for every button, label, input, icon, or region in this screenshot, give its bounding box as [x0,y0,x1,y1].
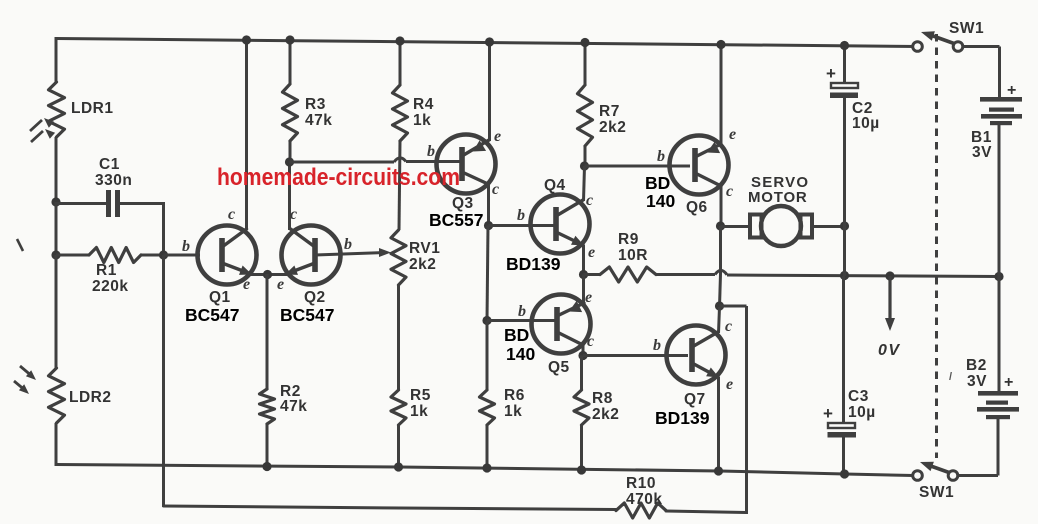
svg-text:C3: C3 [848,388,869,405]
resistor R10 [616,503,666,518]
svg-text:1k: 1k [413,112,431,129]
0V arrow [888,276,891,320]
svg-text:BD139: BD139 [506,254,561,274]
svg-text:0V: 0V [878,342,901,359]
svg-text:2k2: 2k2 [599,119,626,136]
svg-text:b: b [517,207,525,224]
svg-text:Q4: Q4 [544,177,566,194]
svg-text:+: + [1007,82,1016,99]
svg-text:b: b [653,337,661,354]
battery B1 [980,97,1022,102]
svg-text:Q7: Q7 [684,391,706,408]
svg-text:B2: B2 [966,357,987,374]
wire: 0V mid line to battery midpoint [727,275,999,277]
wire: Q1 collector to rail [245,39,248,230]
wire: Q6 emitter to rail [720,44,723,145]
svg-text:47k: 47k [280,398,307,415]
wire: Q2 collector up to R3 node [288,162,291,230]
svg-text:RV1: RV1 [409,240,440,257]
wire: Q3 collector down [487,183,490,226]
svg-text:b: b [182,238,190,255]
resistor R3 [289,38,292,84]
node: R1/C1/R10 junction (Q1 base node) [159,250,168,259]
svg-text:b: b [518,303,526,320]
svg-text:220k: 220k [92,278,128,295]
svg-text:Q1: Q1 [209,289,231,306]
wire: Q5 base node down to R6 [486,321,489,391]
wire: left vertical LDR1 to R1 [55,202,58,256]
potentiometer RV1 [391,230,406,285]
wire: motor right lead [812,225,845,228]
svg-text:BD139: BD139 [655,408,710,428]
svg-text:R1: R1 [96,262,117,279]
svg-text:2k2: 2k2 [592,406,619,423]
capacitor C1 [106,190,111,217]
svg-text:b: b [427,143,435,160]
wire: Q7.c node to R10 riser [720,305,747,308]
svg-text:c: c [228,206,235,223]
svg-text:140: 140 [646,191,675,211]
resistor R8 [580,356,583,391]
svg-text:Q2: Q2 [304,289,326,306]
wire: Q7 emitter down to 0V rail [717,377,720,472]
wire: motor left lead [721,225,752,228]
svg-text:R7: R7 [599,103,620,120]
node: R3/Q2.c junction [285,157,294,166]
svg-text:R10: R10 [626,475,656,492]
resistor R9 [584,273,601,276]
svg-text:homemade-circuits.com: homemade-circuits.com [217,164,460,191]
node: Q3.c / Q4 base node [484,221,493,230]
svg-text:c: c [725,318,732,335]
svg-text:BC557: BC557 [429,210,483,230]
wire: Q4 collector up to R7 node [584,166,585,201]
LDR2 light arrow 1 [20,366,33,377]
wire: left vertical R1 to LDR2 [55,255,58,368]
wire: bottom 0V rail [56,465,913,476]
node: C1 left junction [51,197,60,206]
wire: C2 bottom lead down through motor node to 0V line [843,98,846,276]
transistor Q6 BD140 [670,136,729,195]
LDR2 light arrow 2 [14,381,26,391]
svg-text:b: b [344,236,352,253]
svg-text:R8: R8 [592,390,613,407]
svg-text:10µ: 10µ [852,115,880,132]
LDR2 [49,368,65,423]
wire: Q3.c node to Q4 base [489,224,557,227]
svg-text:140: 140 [506,344,535,364]
svg-text:BC547: BC547 [185,305,239,325]
svg-text:e: e [585,289,592,306]
node: R7 bottom / Q4.c / Q6 base [580,161,589,170]
wire: Q1-Q2 emitter junction [249,273,288,276]
dashed switch gang line [935,34,938,458]
wire: C1 left lead [56,202,108,205]
svg-text:b: b [657,148,665,165]
transistor Q2 BC547 [282,226,341,285]
wire: C3 to bottom rail [842,437,845,475]
LDR1 light arrow 1 [30,120,42,131]
wire: lower feedback rail (R10) [162,255,165,507]
svg-text:2k2: 2k2 [409,256,436,273]
svg-text:3V: 3V [972,144,992,161]
svg-text:/: / [949,371,953,383]
wire: Q2 base to RV1 wiper [315,253,385,256]
svg-text:e: e [588,244,595,261]
svg-text:SW1: SW1 [919,484,954,501]
svg-text:10R: 10R [618,247,648,264]
stray mark [17,239,23,251]
wire: left vertical from top rail to LDR1 [55,37,58,82]
node: motor right / C2 line junction [840,221,849,230]
wire: to Q1 base [164,254,201,257]
node: R2 bottom [262,462,271,471]
svg-text:+: + [826,64,836,83]
svg-text:R3: R3 [305,96,326,113]
wire: C2/C3 line to C3 [842,276,845,423]
svg-text:R9: R9 [618,231,639,248]
wire: to Q6 base [585,165,691,168]
node: Q5 base node [482,316,491,325]
svg-text:LDR2: LDR2 [69,389,111,406]
svg-text:10µ: 10µ [848,404,876,421]
wire: down to Q5 emitter [582,275,585,305]
transistor Q3 BC557 [437,135,496,194]
wire: R3 node to Q3 base [290,161,395,164]
svg-text:47k: 47k [305,112,332,129]
wire hop over bridge line [715,270,727,274]
svg-text:e: e [726,376,733,393]
svg-text:BD: BD [645,173,670,193]
wire: Q7 collector lead [719,307,720,333]
svg-text:C1: C1 [99,156,120,173]
battery B2 [978,391,1018,396]
wire: to Q7 base [583,354,688,357]
wire: R9 to crossing [656,273,715,276]
node: 0V tap [885,271,894,280]
svg-text:Q6: Q6 [686,199,708,216]
LDR1 light arrow 2 [31,131,43,142]
wire: Q4 emitter down [582,245,585,275]
node: motor left terminal junction [716,221,725,230]
resistor R4 [399,38,402,85]
wire: SW1 to B1 [963,45,1000,48]
transistor Q1 BC547 [198,226,257,285]
switch SW1 (bottom pole) [913,471,923,481]
resistor R7 [584,39,587,85]
wire: emitter junction down to R2 [266,274,269,389]
svg-text:3V: 3V [967,373,987,390]
wire: B1 to B2 [998,125,1001,392]
node: Q7 collector junction [715,301,724,310]
svg-text:BC547: BC547 [280,305,334,325]
transistor Q4 BD139 [531,195,590,254]
svg-text:c: c [290,206,297,223]
svg-text:c: c [726,183,733,200]
svg-text:c: c [492,181,499,198]
transistor Q7 BD139 [667,326,726,385]
svg-text:MOTOR: MOTOR [748,189,808,206]
switch SW1 (top pole) [913,42,923,52]
resistor R6 [480,390,495,425]
svg-text:1k: 1k [504,403,522,420]
svg-text:e: e [243,276,250,293]
wire: top positive supply rail [56,39,917,47]
LDR1 [49,82,65,137]
resistor R5 [391,390,406,425]
svg-text:1k: 1k [410,403,428,420]
svg-text:330n: 330n [95,172,132,189]
svg-text:BD: BD [504,325,529,345]
node: R1 left junction [51,250,60,259]
node: Q4.e/Q5.e/R9 junction [579,270,588,279]
wire: bridge vertical to R9 crossing and Q7.c [719,226,722,274]
resistor R1 [56,254,89,257]
wire: Q6 collector down to motor node [720,186,723,227]
svg-text:+: + [1004,374,1013,391]
svg-text:Q5: Q5 [548,359,570,376]
svg-text:470k: 470k [626,491,662,508]
svg-text:SW1: SW1 [949,20,984,37]
wire hop over R4/RV1 line [394,158,406,162]
svg-text:e: e [729,126,736,143]
wire: Q3c node down to Q5 base node [487,226,488,322]
svg-text:e: e [494,128,501,145]
transistor Q5 BD140 [532,295,591,354]
svg-text:R4: R4 [413,96,434,113]
wire: B2 to SW1 bottom [997,419,1000,476]
resistor R2 [260,389,275,424]
svg-text:c: c [586,192,593,209]
wire: Q5 collector down [582,345,585,356]
servo motor [750,215,762,238]
node: Q5.c / Q7 base / R8 junction [578,351,587,360]
svg-text:R5: R5 [410,387,431,404]
wire: Q5 base node to Q5 [487,319,557,322]
svg-text:e: e [277,276,284,293]
svg-text:LDR1: LDR1 [71,100,113,117]
wire: C2 top lead [843,45,846,83]
svg-text:+: + [823,404,833,423]
svg-text:c: c [587,333,594,350]
wire: Q3 emitter to rail [488,41,491,141]
svg-text:R6: R6 [504,387,525,404]
